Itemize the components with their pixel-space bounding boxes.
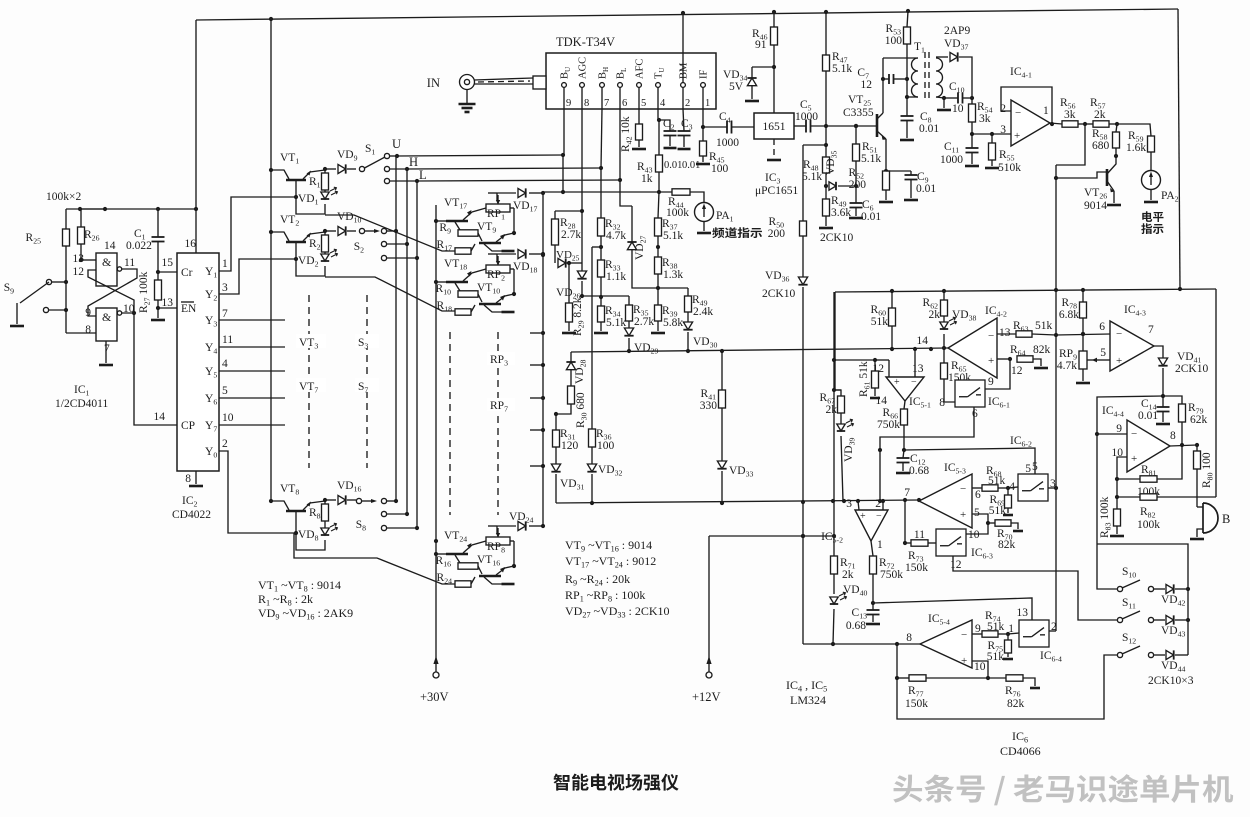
- svg-text:7: 7: [222, 308, 228, 320]
- svg-text:&: &: [102, 310, 112, 324]
- resistor R63: [997, 333, 1016, 335]
- svg-text:VD29: VD29: [634, 342, 659, 356]
- op-amp IC5-4: [920, 620, 972, 668]
- svg-text:+: +: [1014, 130, 1020, 142]
- op-amp IC5-3: [919, 474, 972, 528]
- resistor R39: [657, 288, 659, 305]
- wire collector col: [882, 58, 884, 113]
- svg-text:3: 3: [222, 282, 228, 294]
- resistor R73: [905, 542, 911, 544]
- resistor R37: [658, 192, 659, 218]
- svg-text:5.1k: 5.1k: [663, 230, 683, 242]
- terminal +30V: [433, 672, 439, 678]
- diode VD28: [570, 352, 572, 362]
- diode VD25: [558, 258, 566, 267]
- diode VD41: [1154, 346, 1163, 358]
- svg-text:VT10: VT10: [477, 282, 500, 296]
- svg-text:VD2: VD2: [298, 255, 319, 269]
- diode VD30: [683, 322, 692, 330]
- resistor R75: [1007, 634, 1009, 640]
- svg-text:L: L: [419, 168, 427, 182]
- wire IC5-3 output rail link: [917, 498, 921, 502]
- svg-text:VT24: VT24: [444, 530, 467, 544]
- svg-text:IF: IF: [699, 70, 710, 79]
- svg-text:3.6k: 3.6k: [831, 207, 851, 219]
- svg-text:100: 100: [597, 440, 615, 452]
- wire IC5-3 plus: [972, 514, 988, 529]
- capacitor C6: [855, 186, 857, 203]
- svg-text:R25: R25: [26, 232, 42, 246]
- svg-text:750k: 750k: [877, 419, 900, 431]
- svg-text:1: 1: [705, 98, 710, 109]
- diode VD43: [1154, 619, 1165, 621]
- svg-text:VD1: VD1: [298, 193, 319, 207]
- svg-text:R64: R64: [1010, 344, 1026, 358]
- speaker B: [1203, 503, 1218, 533]
- svg-text:+: +: [961, 655, 967, 667]
- switch S2: [359, 228, 364, 233]
- wire VD bus to IC4-4 border: [1097, 544, 1188, 655]
- wire IC4-4 output: [1170, 445, 1197, 446]
- svg-text:5: 5: [1032, 461, 1038, 473]
- svg-text:9: 9: [988, 376, 994, 388]
- svg-text:IC6-4: IC6-4: [1040, 650, 1062, 664]
- svg-text:VT9 ~VT16 : 9014: VT9 ~VT16 : 9014: [565, 538, 652, 554]
- wire IC5-2 inputs: [858, 501, 859, 510]
- svg-text:51k: 51k: [989, 505, 1007, 517]
- svg-text:IN: IN: [427, 76, 440, 90]
- svg-text:Cr: Cr: [181, 267, 193, 279]
- svg-text:S2: S2: [354, 241, 364, 255]
- svg-text:VD31: VD31: [560, 478, 585, 492]
- resistor R74: [972, 633, 982, 635]
- wire H row to BH: [407, 168, 601, 169]
- IC 1651 box: [754, 113, 794, 139]
- resistor R64: [997, 358, 1010, 360]
- wire IC5-1 plus net: [834, 359, 875, 361]
- resistor R62: [943, 291, 945, 300]
- svg-text:IC6-1: IC6-1: [988, 396, 1010, 410]
- svg-text:1000: 1000: [795, 111, 818, 123]
- svg-text:100k: 100k: [1137, 519, 1160, 531]
- svg-text:+: +: [960, 509, 966, 521]
- op-amp IC4-4: [1127, 420, 1170, 472]
- wire IC4-4 plus: [1117, 457, 1127, 479]
- svg-text:5: 5: [641, 98, 646, 109]
- svg-text:+: +: [1116, 355, 1122, 367]
- svg-text:+: +: [1131, 453, 1137, 465]
- svg-text:13: 13: [73, 253, 85, 265]
- svg-text:VD16: VD16: [337, 480, 362, 494]
- svg-text:6: 6: [975, 489, 981, 501]
- svg-text:VD38: VD38: [952, 309, 977, 323]
- diode VD26: [581, 211, 583, 271]
- svg-text:VD36: VD36: [765, 270, 790, 284]
- svg-text:R63: R63: [1013, 320, 1029, 334]
- wire 100kx2 node rail: [66, 208, 196, 210]
- wire Y4 stub: [219, 346, 285, 348]
- wire omitted channel stubs: [530, 332, 543, 334]
- svg-text:IC6: IC6: [1012, 729, 1028, 745]
- svg-text:82k: 82k: [1007, 698, 1025, 710]
- resistor R29: [568, 263, 570, 303]
- svg-text:9014: 9014: [1084, 200, 1107, 212]
- resistor R61: [874, 360, 876, 371]
- svg-text:0.01: 0.01: [1138, 410, 1158, 422]
- svg-text:VD44: VD44: [1161, 660, 1186, 674]
- resistor R80: [1196, 445, 1198, 451]
- svg-text:IC4 , IC5: IC4 , IC5: [786, 678, 827, 694]
- ground IC3: [773, 139, 775, 158]
- svg-text:0.01: 0.01: [919, 123, 939, 135]
- svg-text:0.01: 0.01: [861, 211, 881, 223]
- svg-text:750k: 750k: [880, 569, 903, 581]
- wire VD36 column: [802, 145, 804, 221]
- svg-text:−: −: [1015, 107, 1021, 119]
- svg-text:R17: R17: [437, 239, 453, 253]
- switch S9: [46, 279, 51, 284]
- svg-text:RP1 ~RP8 : 100k: RP1 ~RP8 : 100k: [565, 588, 645, 604]
- svg-text:120: 120: [561, 440, 579, 452]
- svg-text:VD26: VD26: [556, 287, 581, 301]
- wire U row to BU: [397, 155, 563, 156]
- wire IC6-3 pin10: [966, 529, 988, 534]
- wire +V bus x=271: [270, 19, 272, 501]
- svg-text:6: 6: [972, 408, 978, 420]
- svg-text:0.01: 0.01: [682, 160, 700, 171]
- diode VD36: [798, 277, 807, 285]
- capacitor C7: [883, 78, 889, 80]
- svg-text:VD43: VD43: [1161, 625, 1186, 639]
- svg-text:C13: C13: [852, 607, 868, 621]
- svg-text:5: 5: [974, 507, 980, 519]
- wire IC4-2 pin12 to IC6-1: [984, 359, 1010, 389]
- svg-text:R2: R2: [309, 238, 321, 252]
- wire VT26 base: [1056, 124, 1085, 165]
- svg-text:1k: 1k: [641, 173, 653, 185]
- resistor R31: [555, 414, 557, 430]
- wire IC6-2 out: [1048, 487, 1056, 489]
- svg-text:5: 5: [1100, 347, 1106, 359]
- svg-text:R27 100k: R27 100k: [138, 271, 152, 313]
- wire BM to rail: [682, 13, 684, 53]
- svg-text:82k: 82k: [1033, 344, 1051, 356]
- svg-text:200: 200: [849, 179, 867, 191]
- switch IC6-1: [955, 380, 985, 407]
- resistor R78: [1082, 290, 1084, 302]
- svg-text:VD8: VD8: [298, 529, 319, 543]
- resistor R66: [904, 401, 905, 409]
- svg-text:6: 6: [622, 98, 627, 109]
- wire IC5-4 input row: [803, 643, 920, 645]
- svg-text:3: 3: [846, 498, 852, 510]
- label S7: [355, 378, 379, 392]
- wire Y3 stub: [219, 319, 285, 321]
- svg-text:R24: R24: [437, 572, 453, 586]
- svg-text:VD40: VD40: [843, 584, 868, 598]
- terminal +12V: [708, 536, 710, 672]
- wire section rail y=291: [835, 289, 1216, 292]
- svg-text:VD17: VD17: [513, 200, 538, 214]
- svg-text:IC5-3: IC5-3: [944, 462, 966, 476]
- svg-text:−: −: [1131, 428, 1137, 440]
- wire S1 contacts: [390, 155, 396, 157]
- svg-text:6.8k: 6.8k: [1059, 309, 1079, 321]
- resistor R79: [1163, 396, 1182, 404]
- svg-text:VT18: VT18: [444, 258, 467, 272]
- wire S10 feed: [1097, 544, 1117, 589]
- svg-text:R9 ~R24 : 20k: R9 ~R24 : 20k: [565, 572, 630, 588]
- svg-text:R26: R26: [84, 229, 100, 243]
- svg-text:7: 7: [604, 98, 609, 109]
- transistor VT_{18}: [496, 254, 498, 261]
- svg-text:C3: C3: [681, 118, 693, 132]
- wire Y6 stub: [219, 397, 285, 399]
- diode VD29: [624, 328, 633, 336]
- svg-text:−: −: [988, 330, 994, 342]
- svg-text:S8: S8: [356, 519, 366, 533]
- svg-text:3k: 3k: [979, 113, 991, 125]
- label title: [554, 774, 679, 791]
- svg-text:100: 100: [711, 163, 729, 175]
- capacitor C9: [886, 170, 911, 172]
- svg-text:11: 11: [222, 334, 233, 346]
- wire bottom rail y=503: [556, 500, 919, 503]
- svg-text:VD30: VD30: [693, 336, 718, 350]
- svg-text:2k: 2k: [826, 404, 838, 416]
- svg-text:R77: R77: [908, 685, 924, 699]
- svg-text:IC4-1: IC4-1: [1010, 66, 1032, 80]
- svg-text:R1: R1: [309, 176, 321, 190]
- diode VD27: [620, 180, 632, 206]
- dashed omitted RP blocks: [449, 332, 451, 515]
- svg-text:8: 8: [939, 397, 945, 409]
- wire bottom loop to S12: [897, 655, 1117, 719]
- svg-text:PA1: PA1: [716, 210, 734, 224]
- diode VD35: [829, 182, 836, 190]
- svg-text:+12V: +12V: [692, 690, 721, 704]
- svg-text:AGC: AGC: [578, 57, 589, 79]
- svg-text:5.1k: 5.1k: [861, 153, 881, 165]
- svg-text:51k: 51k: [987, 621, 1005, 633]
- svg-text:C4: C4: [719, 111, 731, 125]
- svg-text:S11: S11: [1122, 597, 1136, 611]
- wire R27 EN node: [158, 307, 177, 309]
- svg-text:1651: 1651: [763, 121, 786, 133]
- svg-text:U: U: [392, 137, 401, 151]
- svg-text:VT8: VT8: [280, 483, 299, 497]
- wire IC2 pin8 ground: [195, 471, 197, 484]
- svg-text:1.1k: 1.1k: [606, 271, 626, 283]
- svg-text:100: 100: [885, 35, 903, 47]
- LED VD38: [940, 322, 948, 329]
- wire S9 lower contact: [49, 309, 66, 311]
- wire detector row y=351: [571, 348, 948, 352]
- svg-text:IC5-2: IC5-2: [821, 531, 843, 545]
- wire IC5-1 inputs: [888, 360, 890, 377]
- wire left frame down to IC2 pin16: [195, 20, 197, 253]
- svg-text:0.022: 0.022: [126, 240, 152, 252]
- label channel indicator: [712, 227, 762, 238]
- wire top supply rail: [196, 9, 1178, 20]
- resistor R52: [885, 139, 887, 171]
- svg-text:330: 330: [700, 400, 718, 412]
- svg-text:VD9: VD9: [337, 149, 358, 163]
- resistor R53: [907, 11, 908, 27]
- resistor R72: [871, 541, 873, 556]
- svg-text:2k: 2k: [842, 569, 854, 581]
- transistor VT_{2}: [286, 241, 306, 244]
- resistor R47: [825, 12, 827, 55]
- svg-text:R80 100: R80 100: [1201, 452, 1215, 488]
- svg-text:VD10: VD10: [337, 211, 362, 225]
- op-amp IC4-2: [948, 318, 997, 378]
- svg-text:IC3: IC3: [765, 172, 781, 186]
- wire y296 row: [582, 295, 629, 297]
- svg-text:VD32: VD32: [598, 464, 623, 478]
- svg-text:IC5-4: IC5-4: [928, 613, 950, 627]
- svg-text:4.7k: 4.7k: [606, 230, 626, 242]
- svg-text:62k: 62k: [1190, 414, 1208, 426]
- svg-text:4.7k: 4.7k: [1057, 360, 1077, 372]
- wire IC6-3 pin12 to S11: [953, 556, 1117, 620]
- wire IC1 cross-coupling: [88, 269, 137, 316]
- svg-text:−: −: [1116, 328, 1122, 340]
- svg-text:2CK10: 2CK10: [762, 288, 795, 300]
- svg-text:IC6-2: IC6-2: [1010, 435, 1032, 449]
- svg-text:VD24: VD24: [509, 511, 534, 525]
- svg-text:R10: R10: [436, 283, 452, 297]
- gate IC1b (&): [96, 308, 117, 341]
- diode VD44: [1154, 654, 1165, 656]
- svg-text:VD28: VD28: [574, 359, 588, 384]
- svg-text:2k: 2k: [1094, 109, 1106, 121]
- svg-text:9: 9: [566, 98, 571, 109]
- svg-text:VD25: VD25: [556, 249, 580, 263]
- svg-text:100k×2: 100k×2: [46, 191, 81, 203]
- resistor R83: [1116, 497, 1118, 509]
- switch IC6-2: [1008, 487, 1018, 488]
- resistor R60: [891, 291, 893, 308]
- svg-text:1.6k: 1.6k: [1126, 142, 1146, 154]
- meter PA1: [695, 203, 714, 222]
- svg-text:VT16: VT16: [477, 554, 500, 568]
- wire IC4-1 output: [1050, 123, 1062, 124]
- svg-text:VD27 ~VD33 : 2CK10: VD27 ~VD33 : 2CK10: [565, 604, 670, 620]
- capacitor C13: [872, 603, 874, 610]
- capacitor C3: [683, 109, 684, 131]
- resistor R49a: [825, 186, 827, 199]
- svg-text:3k: 3k: [1064, 109, 1076, 121]
- wire VD bus x=543: [542, 192, 544, 527]
- resistor R71: [833, 536, 835, 556]
- diode VD32: [587, 464, 596, 472]
- svg-text:51k: 51k: [988, 475, 1006, 487]
- svg-text:4: 4: [222, 358, 228, 370]
- svg-text:4: 4: [1009, 481, 1015, 493]
- svg-text:5.1k: 5.1k: [802, 171, 822, 183]
- svg-text:150k: 150k: [905, 698, 928, 710]
- switch S1: [359, 166, 364, 171]
- transistor VT_{8}: [286, 510, 306, 513]
- svg-text:1.3k: 1.3k: [663, 269, 683, 281]
- wire C14 node to IC4-4 border: [1097, 396, 1163, 544]
- wire IC6-1 pin6: [880, 407, 974, 501]
- svg-text:R42 10k: R42 10k: [620, 116, 634, 152]
- svg-text:VD37: VD37: [944, 38, 969, 52]
- label RP7: [487, 398, 515, 411]
- wire AGC column: [581, 109, 583, 211]
- wire BL column: [619, 109, 621, 180]
- svg-text:VD35: VD35: [825, 150, 839, 175]
- diode VD37: [950, 52, 958, 61]
- dashed omitted channels VT3-VT7: [308, 295, 310, 468]
- svg-text:680: 680: [1092, 140, 1110, 152]
- wire ch1 diag to R17: [325, 215, 455, 251]
- resistor R36: [592, 246, 601, 248]
- wire Y7 stub: [219, 424, 285, 426]
- svg-text:13: 13: [162, 297, 174, 309]
- capacitor C10: [944, 97, 958, 99]
- label RP3: [487, 352, 515, 365]
- transistor VT26: [1106, 169, 1109, 186]
- svg-text:IC2: IC2: [182, 495, 198, 509]
- svg-text:12: 12: [861, 79, 873, 91]
- switch IC6-4: [1008, 633, 1019, 634]
- resistor R58: [1116, 124, 1117, 132]
- svg-text:7: 7: [1148, 324, 1154, 336]
- diode VD34 zener: [752, 66, 774, 68]
- svg-text:91: 91: [755, 39, 767, 51]
- wire R63 to IC4-3: [1056, 334, 1110, 335]
- wire ch2 diag to R18: [325, 277, 455, 311]
- svg-text:5V: 5V: [729, 81, 744, 93]
- wire BH column: [601, 109, 602, 168]
- svg-text:VT9: VT9: [477, 221, 496, 235]
- svg-text:+30V: +30V: [420, 690, 449, 704]
- svg-text:C10: C10: [949, 81, 965, 95]
- svg-text:10: 10: [952, 103, 964, 115]
- svg-text:8: 8: [1170, 430, 1176, 442]
- svg-text:15: 15: [162, 257, 174, 269]
- resistor R49b: [658, 287, 688, 289]
- svg-text:R83 100k: R83 100k: [1099, 496, 1113, 538]
- wire S8 contacts: [387, 500, 396, 502]
- svg-text:EN: EN: [181, 303, 197, 315]
- resistor R27: [155, 280, 162, 300]
- svg-text:1: 1: [1043, 105, 1049, 117]
- op-amp IC4-3: [1110, 321, 1154, 371]
- svg-text:R55: R55: [999, 149, 1015, 163]
- capacitor C14: [1162, 396, 1164, 407]
- op-amp IC5-1: [886, 377, 924, 401]
- switch S10: [1117, 586, 1122, 591]
- svg-text:+: +: [860, 511, 866, 522]
- wire IC1b output to CP: [134, 313, 177, 425]
- svg-text:−: −: [960, 483, 966, 495]
- svg-text:IC5-1: IC5-1: [909, 396, 931, 410]
- svg-text:IC4-3: IC4-3: [1124, 304, 1146, 318]
- svg-text:VD27: VD27: [634, 235, 648, 260]
- tuner pins: [562, 83, 567, 88]
- capacitor C11: [971, 134, 973, 148]
- svg-text:μPC1651: μPC1651: [755, 185, 798, 197]
- wire 1651-R47 link: [803, 144, 826, 146]
- resistor R38: [657, 247, 659, 257]
- IC tuner TDK-T34V box: [546, 53, 716, 109]
- wire S2 contacts: [387, 230, 396, 232]
- svg-text:200: 200: [768, 228, 786, 240]
